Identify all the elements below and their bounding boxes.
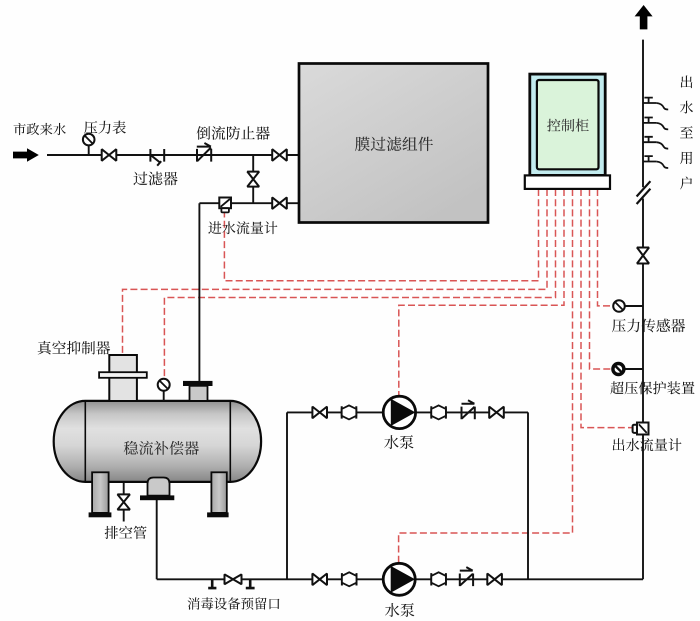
strainer filter	[150, 149, 164, 166]
tank bottom outlet	[148, 478, 170, 496]
left header drop	[286, 412, 288, 579]
riser valve	[637, 248, 649, 264]
label pressure sensor	[612, 319, 685, 333]
control line to inlet flow meter	[224, 189, 538, 281]
overpressure device tap	[625, 368, 643, 370]
label outlet flow meter	[613, 438, 682, 451]
label pump 1	[384, 435, 413, 449]
control cabinet inner panel	[537, 80, 599, 169]
label overpressure protection	[610, 381, 694, 394]
tank inlet fitting flange	[183, 381, 213, 386]
branch vertical at node	[252, 155, 254, 203]
main inlet pipe	[47, 154, 299, 156]
vacuum suppressor pipe	[109, 355, 137, 401]
right header drop	[527, 412, 529, 579]
valve 2	[272, 149, 287, 161]
top pump header	[287, 411, 528, 413]
overpressure protection device	[613, 364, 624, 375]
drain pipe	[123, 481, 125, 522]
flex joint 4	[431, 573, 446, 585]
valve 3	[272, 197, 287, 209]
control line to outlet flow meter	[581, 189, 632, 428]
label outlet-to-user char 用	[680, 152, 692, 165]
drain valve	[118, 494, 130, 509]
pump 1	[383, 396, 415, 428]
outlet riser pipe upper	[642, 40, 644, 188]
control line to pump 2	[399, 189, 573, 563]
tank bottom outlet flange	[140, 495, 174, 500]
label outlet-to-user char 户	[680, 177, 692, 190]
bottom header	[157, 578, 643, 580]
inlet flow meter	[219, 198, 231, 209]
lower inlet pipe	[199, 202, 299, 204]
flex joint 3	[342, 573, 357, 585]
control line to tank pressure gauge	[164, 189, 555, 378]
outlet riser pipe lower	[642, 199, 644, 580]
outlet flow meter	[633, 425, 638, 433]
tank outlet drop	[156, 499, 158, 579]
label steady flow compensator	[124, 441, 199, 455]
tank inlet fitting pipe	[190, 386, 208, 401]
steady-flow compensator tank body	[54, 401, 261, 482]
tank right leg	[211, 472, 226, 513]
control line to overpressure device	[590, 189, 612, 369]
outlet arrow up	[635, 5, 653, 29]
reserved port cap left	[208, 579, 216, 588]
flex joint 2	[431, 406, 446, 418]
inlet arrow	[13, 148, 39, 161]
valve 1	[102, 149, 117, 161]
label backflow preventer	[197, 126, 270, 140]
label outlet-to-user char 至	[680, 126, 693, 138]
label inlet flow meter	[208, 221, 277, 234]
user faucet 2	[643, 118, 656, 123]
gauge stem	[88, 145, 90, 155]
reserved port cap right	[246, 579, 255, 588]
valve 5	[489, 407, 504, 419]
user faucet 3	[643, 137, 656, 142]
tank left leg	[92, 472, 109, 513]
pipe down to tank inlet fitting	[198, 203, 200, 381]
valve 7	[487, 574, 502, 586]
tank left foot	[89, 512, 112, 517]
label membrane module	[355, 137, 433, 152]
user faucet 4	[643, 156, 656, 161]
label vacuum suppressor	[38, 341, 110, 355]
vacuum suppressor flange	[99, 372, 147, 378]
label strainer	[133, 172, 177, 186]
control cabinet base	[525, 175, 610, 189]
pipe break symbol	[637, 181, 651, 204]
control line to pressure sensor	[598, 189, 614, 306]
pressure gauge	[83, 134, 95, 146]
pump 2	[383, 563, 415, 595]
disinfection port valve	[225, 574, 242, 584]
label disinfection reserved port	[188, 597, 280, 609]
control line to vacuum suppressor	[123, 189, 548, 355]
control line to pump 1	[399, 189, 564, 396]
flex joint 1	[342, 406, 357, 418]
check valve 2	[460, 567, 473, 586]
control cabinet outer	[530, 74, 605, 175]
pressure sensor	[613, 300, 625, 312]
label control cabinet	[547, 119, 589, 132]
label outlet-to-user char 水	[680, 101, 693, 114]
label pump 2	[385, 603, 414, 617]
label outlet-to-user char 出	[681, 76, 693, 89]
user faucet 1	[643, 98, 656, 103]
bypass valve	[247, 172, 259, 187]
backflow preventer	[197, 143, 211, 162]
check valve 1	[462, 400, 475, 419]
valve 4	[312, 407, 327, 419]
tank pressure gauge	[163, 391, 165, 401]
valve 6	[312, 574, 327, 586]
tank right foot	[207, 512, 229, 517]
membrane filter module box	[299, 64, 488, 223]
label drain pipe	[105, 526, 147, 539]
label municipal inlet	[14, 123, 66, 135]
pressure sensor tap	[625, 305, 643, 307]
label pressure gauge	[84, 121, 126, 134]
